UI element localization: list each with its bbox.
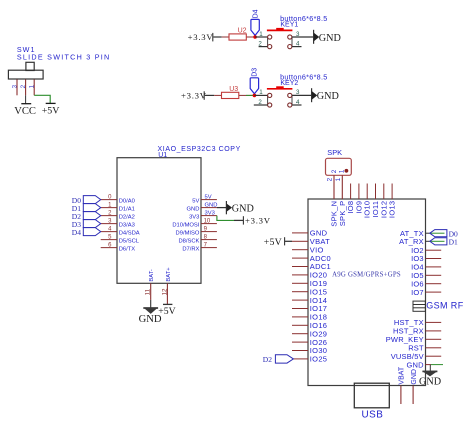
svg-text:+5V: +5V bbox=[158, 306, 175, 317]
junction bbox=[253, 35, 257, 39]
svg-text:D2: D2 bbox=[263, 355, 272, 364]
A9G right pin IO2 bbox=[426, 249, 442, 251]
svg-text:+5V: +5V bbox=[42, 106, 61, 117]
svg-text:D7/RX: D7/RX bbox=[182, 247, 199, 253]
A9G left pin IO16 bbox=[292, 324, 308, 326]
U1 left pin 1 bbox=[101, 207, 117, 209]
A9G left pin IO17 bbox=[292, 308, 308, 310]
svg-text:4: 4 bbox=[296, 41, 300, 48]
U1 left pin 2 bbox=[101, 215, 117, 217]
wire (green) bbox=[246, 94, 254, 96]
wire GND (A9G right) bbox=[431, 364, 443, 366]
svg-text:1: 1 bbox=[29, 84, 36, 88]
A9G right pin VUSB/5V bbox=[426, 355, 442, 357]
svg-text:D10/MOSI: D10/MOSI bbox=[172, 223, 199, 229]
svg-text:GND: GND bbox=[319, 33, 341, 44]
svg-text:D4: D4 bbox=[252, 9, 259, 18]
A9G left pin VIO bbox=[292, 249, 308, 251]
A9G left pin IO15 bbox=[292, 291, 308, 293]
resistor U3 bbox=[214, 94, 221, 96]
svg-text:BAT-: BAT- bbox=[149, 269, 155, 282]
wire bbox=[254, 104, 259, 106]
svg-text:IO7: IO7 bbox=[411, 288, 424, 297]
switch SW1 pin 3 bbox=[16, 79, 18, 95]
svg-text:A9G GSM/GPRS+GPS: A9G GSM/GPRS+GPS bbox=[332, 271, 401, 278]
wire SPK pin2 bbox=[333, 175, 335, 199]
A9G top pin IO13 bbox=[391, 184, 393, 200]
svg-text:D0/A0: D0/A0 bbox=[119, 199, 135, 205]
svg-text:3V3: 3V3 bbox=[205, 210, 215, 216]
U1 left pin 5 bbox=[101, 239, 117, 241]
svg-text:GND: GND bbox=[411, 369, 418, 385]
A9G top pin IO9 bbox=[358, 184, 360, 200]
power +5V (BAT+) bbox=[163, 303, 172, 305]
ground GND netport bbox=[311, 88, 313, 102]
svg-text:+3.3V: +3.3V bbox=[245, 216, 271, 226]
net flag D0 bbox=[430, 232, 445, 234]
A9G right pin RST bbox=[426, 347, 442, 349]
A9G top pin IO11 bbox=[375, 184, 377, 200]
U1 left pin 4 bbox=[101, 231, 117, 233]
A9G left pin IO14 bbox=[292, 299, 308, 301]
pin stubs bbox=[292, 36, 314, 38]
U1 right pin D10/MOSI bbox=[201, 223, 217, 225]
A9G right pin AT_RX bbox=[426, 240, 430, 242]
svg-text:2: 2 bbox=[331, 169, 338, 173]
svg-text:D1/A1: D1/A1 bbox=[119, 207, 135, 213]
svg-text:10: 10 bbox=[204, 218, 211, 224]
GSM RF port bbox=[413, 301, 425, 311]
svg-text:+3.3V: +3.3V bbox=[188, 32, 214, 42]
A9G left pin IO18 bbox=[292, 316, 308, 318]
A9G right pin IO3 bbox=[426, 258, 442, 260]
svg-text:3: 3 bbox=[296, 31, 300, 38]
svg-text:1: 1 bbox=[259, 31, 263, 38]
wire bbox=[254, 94, 267, 96]
wire pin1 to +5V (green) bbox=[34, 95, 50, 103]
A9G right pin AT_TX bbox=[426, 232, 430, 234]
ground GND netport (U1 GND pin) bbox=[217, 207, 226, 209]
U1 right pin GND bbox=[201, 207, 217, 209]
power +3.3V (U1) bbox=[234, 219, 243, 221]
net flag D2 bbox=[83, 212, 100, 220]
U1 left pin 6 bbox=[101, 247, 117, 249]
svg-text:VCC: VCC bbox=[14, 106, 36, 117]
svg-text:4: 4 bbox=[296, 99, 300, 106]
svg-text:D4/SDA: D4/SDA bbox=[119, 231, 140, 237]
A9G left pin VBAT bbox=[292, 240, 308, 242]
switch SW1 pin 1 bbox=[33, 79, 35, 95]
LED D3 bbox=[250, 78, 258, 94]
svg-text:1: 1 bbox=[335, 177, 342, 181]
ground GND (A9G right) bbox=[422, 370, 437, 372]
svg-text:USB: USB bbox=[362, 409, 384, 420]
svg-text:GND: GND bbox=[232, 203, 254, 214]
net flag D3 bbox=[83, 220, 100, 228]
A9G top pin IO12 bbox=[383, 184, 385, 200]
A9G left pin ADC0 bbox=[292, 257, 308, 259]
svg-text:D6/TX: D6/TX bbox=[119, 247, 136, 253]
A9G bottom pin VBAT bbox=[400, 386, 402, 405]
switch SW1 body bbox=[8, 70, 43, 79]
A9G left pin IO25 bbox=[292, 358, 308, 360]
svg-text:5V: 5V bbox=[192, 199, 199, 205]
power VCC bbox=[21, 103, 31, 105]
A9G left pin ADC1 bbox=[292, 266, 308, 268]
A9G right pin PWR_KEY bbox=[426, 338, 442, 340]
svg-text:D4: D4 bbox=[72, 228, 81, 237]
svg-text:2: 2 bbox=[258, 99, 262, 106]
pin stubs bbox=[292, 94, 312, 96]
svg-text:GND: GND bbox=[205, 202, 218, 208]
IC A9G GSM/GPRS+GPS bbox=[308, 199, 426, 386]
A9G top pin IO10 bbox=[366, 184, 368, 200]
svg-text:D2/A2: D2/A2 bbox=[119, 215, 135, 221]
svg-text:GND: GND bbox=[419, 376, 441, 387]
net flag D1 bbox=[430, 240, 445, 242]
svg-text:XIAO_ESP32C3 COPY: XIAO_ESP32C3 COPY bbox=[158, 146, 241, 153]
A9G left pin IO20 bbox=[292, 274, 308, 276]
svg-text:D1: D1 bbox=[449, 237, 458, 246]
U1 right pin 3V3 bbox=[201, 215, 217, 217]
svg-text:AT_RX: AT_RX bbox=[399, 237, 424, 246]
U1 pin 12 BAT+ bbox=[166, 283, 168, 304]
net flag D2 bbox=[275, 355, 293, 363]
connector USB bbox=[354, 383, 389, 408]
svg-text:3: 3 bbox=[11, 84, 18, 88]
A9G bottom pin GND bbox=[412, 386, 414, 405]
net flag D1 bbox=[83, 204, 100, 212]
ground GND netport bbox=[313, 30, 315, 44]
svg-text:D3: D3 bbox=[252, 68, 259, 77]
A9G right pin IO5 bbox=[426, 274, 442, 276]
A9G right pin GND bbox=[426, 364, 432, 366]
LED D4 bbox=[251, 19, 259, 35]
A9G left pin GND bbox=[292, 232, 308, 234]
U1 right pin 5V bbox=[201, 199, 217, 201]
net flag D0 bbox=[83, 196, 100, 204]
svg-text:GSM RF: GSM RF bbox=[426, 301, 464, 311]
svg-text:5V: 5V bbox=[205, 194, 212, 200]
svg-text:+3.3V: +3.3V bbox=[181, 91, 207, 101]
switch SW1 pin 2 bbox=[25, 79, 27, 95]
wire 3V3 to +3.3V (green) bbox=[217, 216, 234, 221]
U1 right pin D8/SCK bbox=[201, 239, 217, 241]
svg-text:GND: GND bbox=[317, 91, 339, 102]
svg-text:VBAT: VBAT bbox=[399, 366, 406, 384]
U1 right pin D7/RX bbox=[201, 247, 217, 249]
junction bbox=[253, 94, 257, 98]
svg-text:GND: GND bbox=[407, 360, 425, 369]
svg-text:BAT+: BAT+ bbox=[166, 267, 172, 282]
A9G top pin IO8 bbox=[350, 184, 352, 200]
svg-text:+5V: +5V bbox=[264, 237, 282, 248]
svg-text:12: 12 bbox=[161, 288, 168, 295]
A9G right pin HST_RX bbox=[426, 330, 442, 332]
wire SPK pin1 bbox=[341, 175, 343, 199]
svg-text:GND: GND bbox=[187, 207, 200, 213]
svg-text:1: 1 bbox=[259, 89, 263, 96]
ground GND (BAT-) bbox=[143, 307, 158, 309]
svg-text:KEY2: KEY2 bbox=[280, 80, 298, 87]
A9G right pin IO6 bbox=[426, 283, 442, 285]
svg-text:IO25: IO25 bbox=[310, 355, 327, 364]
U1 left pin 0 bbox=[101, 199, 117, 201]
A9G right pin HST_TX bbox=[426, 321, 442, 323]
wire pin2 to VCC bbox=[25, 95, 27, 103]
svg-text:SPK: SPK bbox=[327, 148, 342, 157]
A9G left pin IO19 bbox=[292, 282, 308, 284]
svg-text:2: 2 bbox=[327, 177, 334, 181]
svg-text:IO13: IO13 bbox=[388, 201, 397, 218]
power +5V bbox=[46, 102, 56, 104]
net flag D4 bbox=[83, 228, 100, 236]
svg-text:D8/SCK: D8/SCK bbox=[178, 239, 199, 245]
wire bbox=[213, 36, 221, 38]
A9G right pin IO7 bbox=[426, 291, 442, 293]
U1 pin 11 BAT- bbox=[150, 283, 152, 300]
A9G left pin IO26 bbox=[292, 341, 308, 343]
svg-text:3: 3 bbox=[296, 89, 300, 96]
U1 right pin D9/MISO bbox=[201, 231, 217, 233]
U1 left pin 3 bbox=[101, 223, 117, 225]
svg-text:D3/A3: D3/A3 bbox=[119, 223, 135, 229]
svg-text:D9/MISO: D9/MISO bbox=[176, 231, 200, 237]
A9G left pin IO29 bbox=[292, 333, 308, 335]
svg-text:D5/SCL: D5/SCL bbox=[119, 239, 140, 245]
svg-text:KEY1: KEY1 bbox=[280, 21, 298, 28]
wire bbox=[255, 36, 268, 38]
svg-text:1: 1 bbox=[339, 169, 346, 173]
A9G left pin IO30 bbox=[292, 350, 308, 352]
svg-text:U2: U2 bbox=[238, 27, 247, 34]
A9G right pin IO4 bbox=[426, 266, 442, 268]
resistor U2 bbox=[222, 36, 229, 38]
svg-text:2: 2 bbox=[20, 84, 27, 88]
svg-text:3V3: 3V3 bbox=[189, 215, 199, 221]
svg-text:U3: U3 bbox=[229, 86, 238, 93]
wire bbox=[205, 94, 215, 96]
svg-text:2: 2 bbox=[258, 41, 262, 48]
svg-text:SLIDE SWITCH 3 PIN: SLIDE SWITCH 3 PIN bbox=[17, 53, 111, 62]
svg-text:11: 11 bbox=[145, 288, 152, 295]
